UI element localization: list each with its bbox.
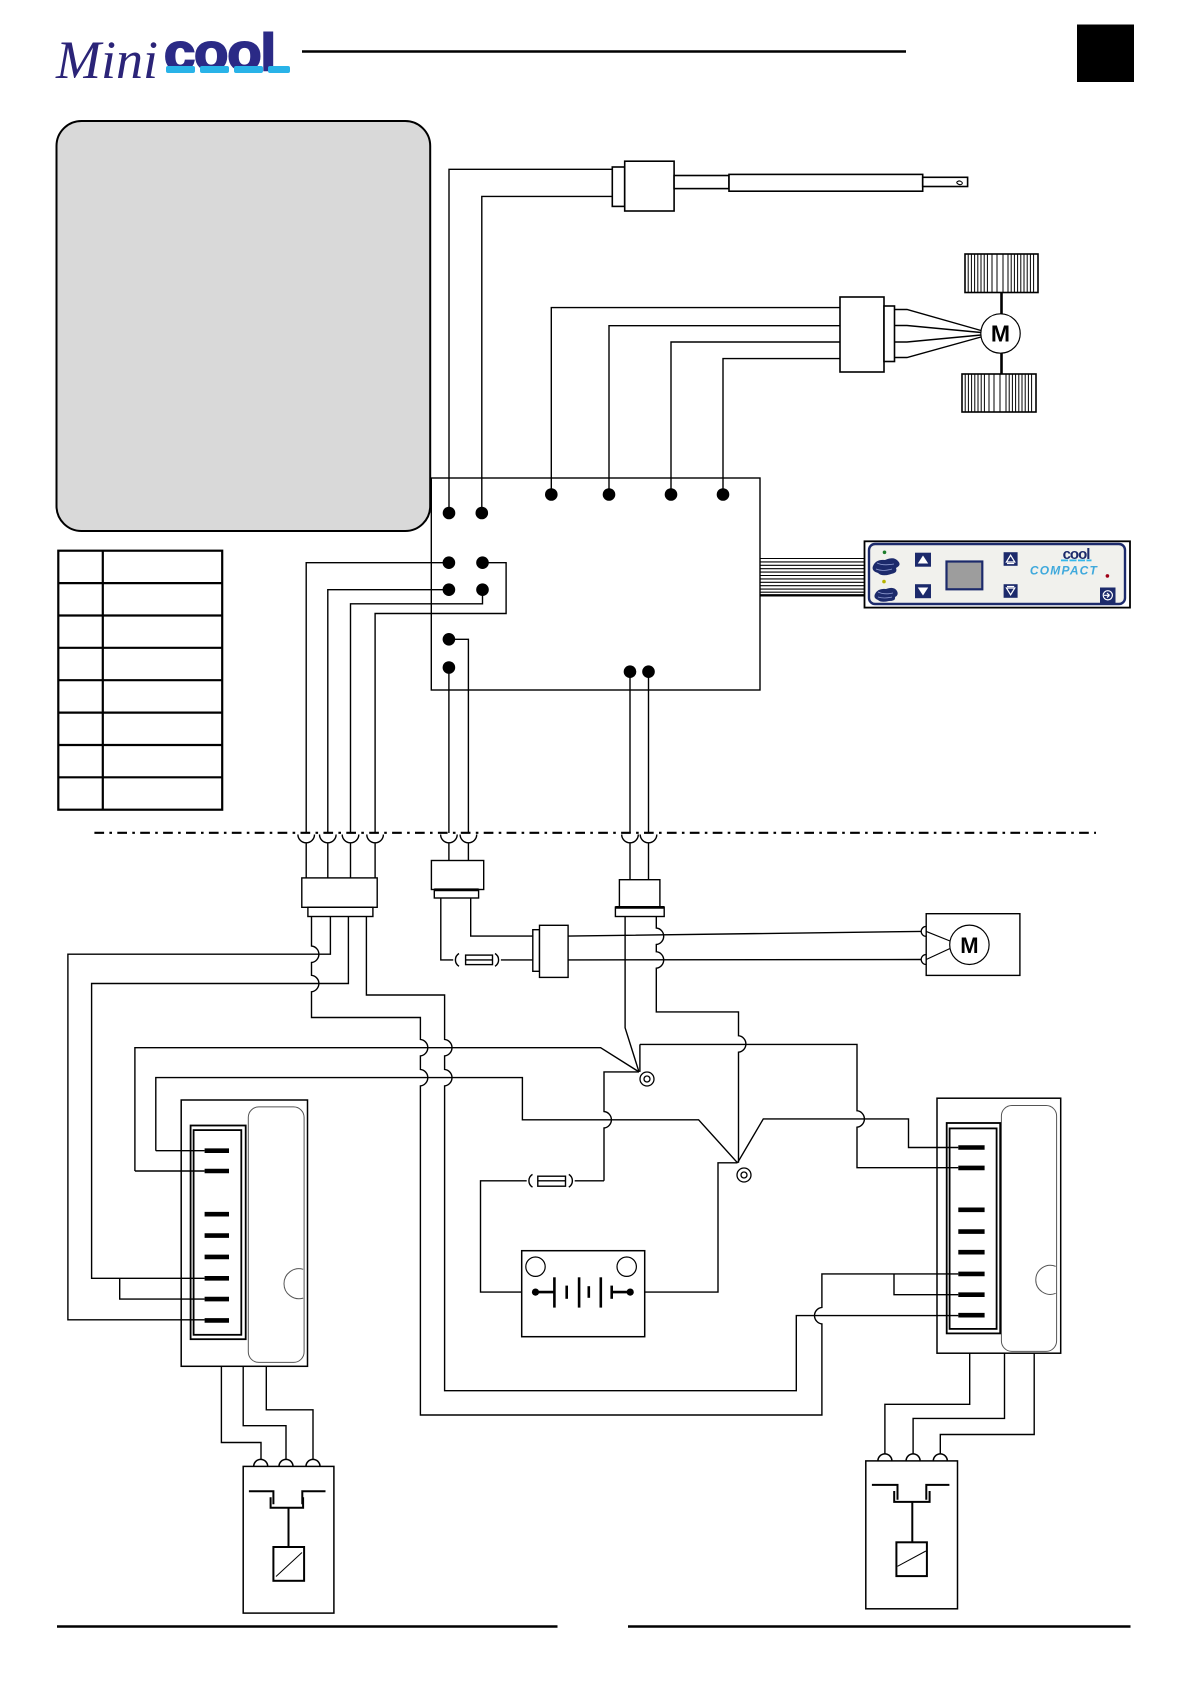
svg-text:M: M [960, 933, 978, 958]
svg-text:M: M [991, 321, 1010, 347]
svg-text:COMPACT: COMPACT [1030, 564, 1099, 578]
